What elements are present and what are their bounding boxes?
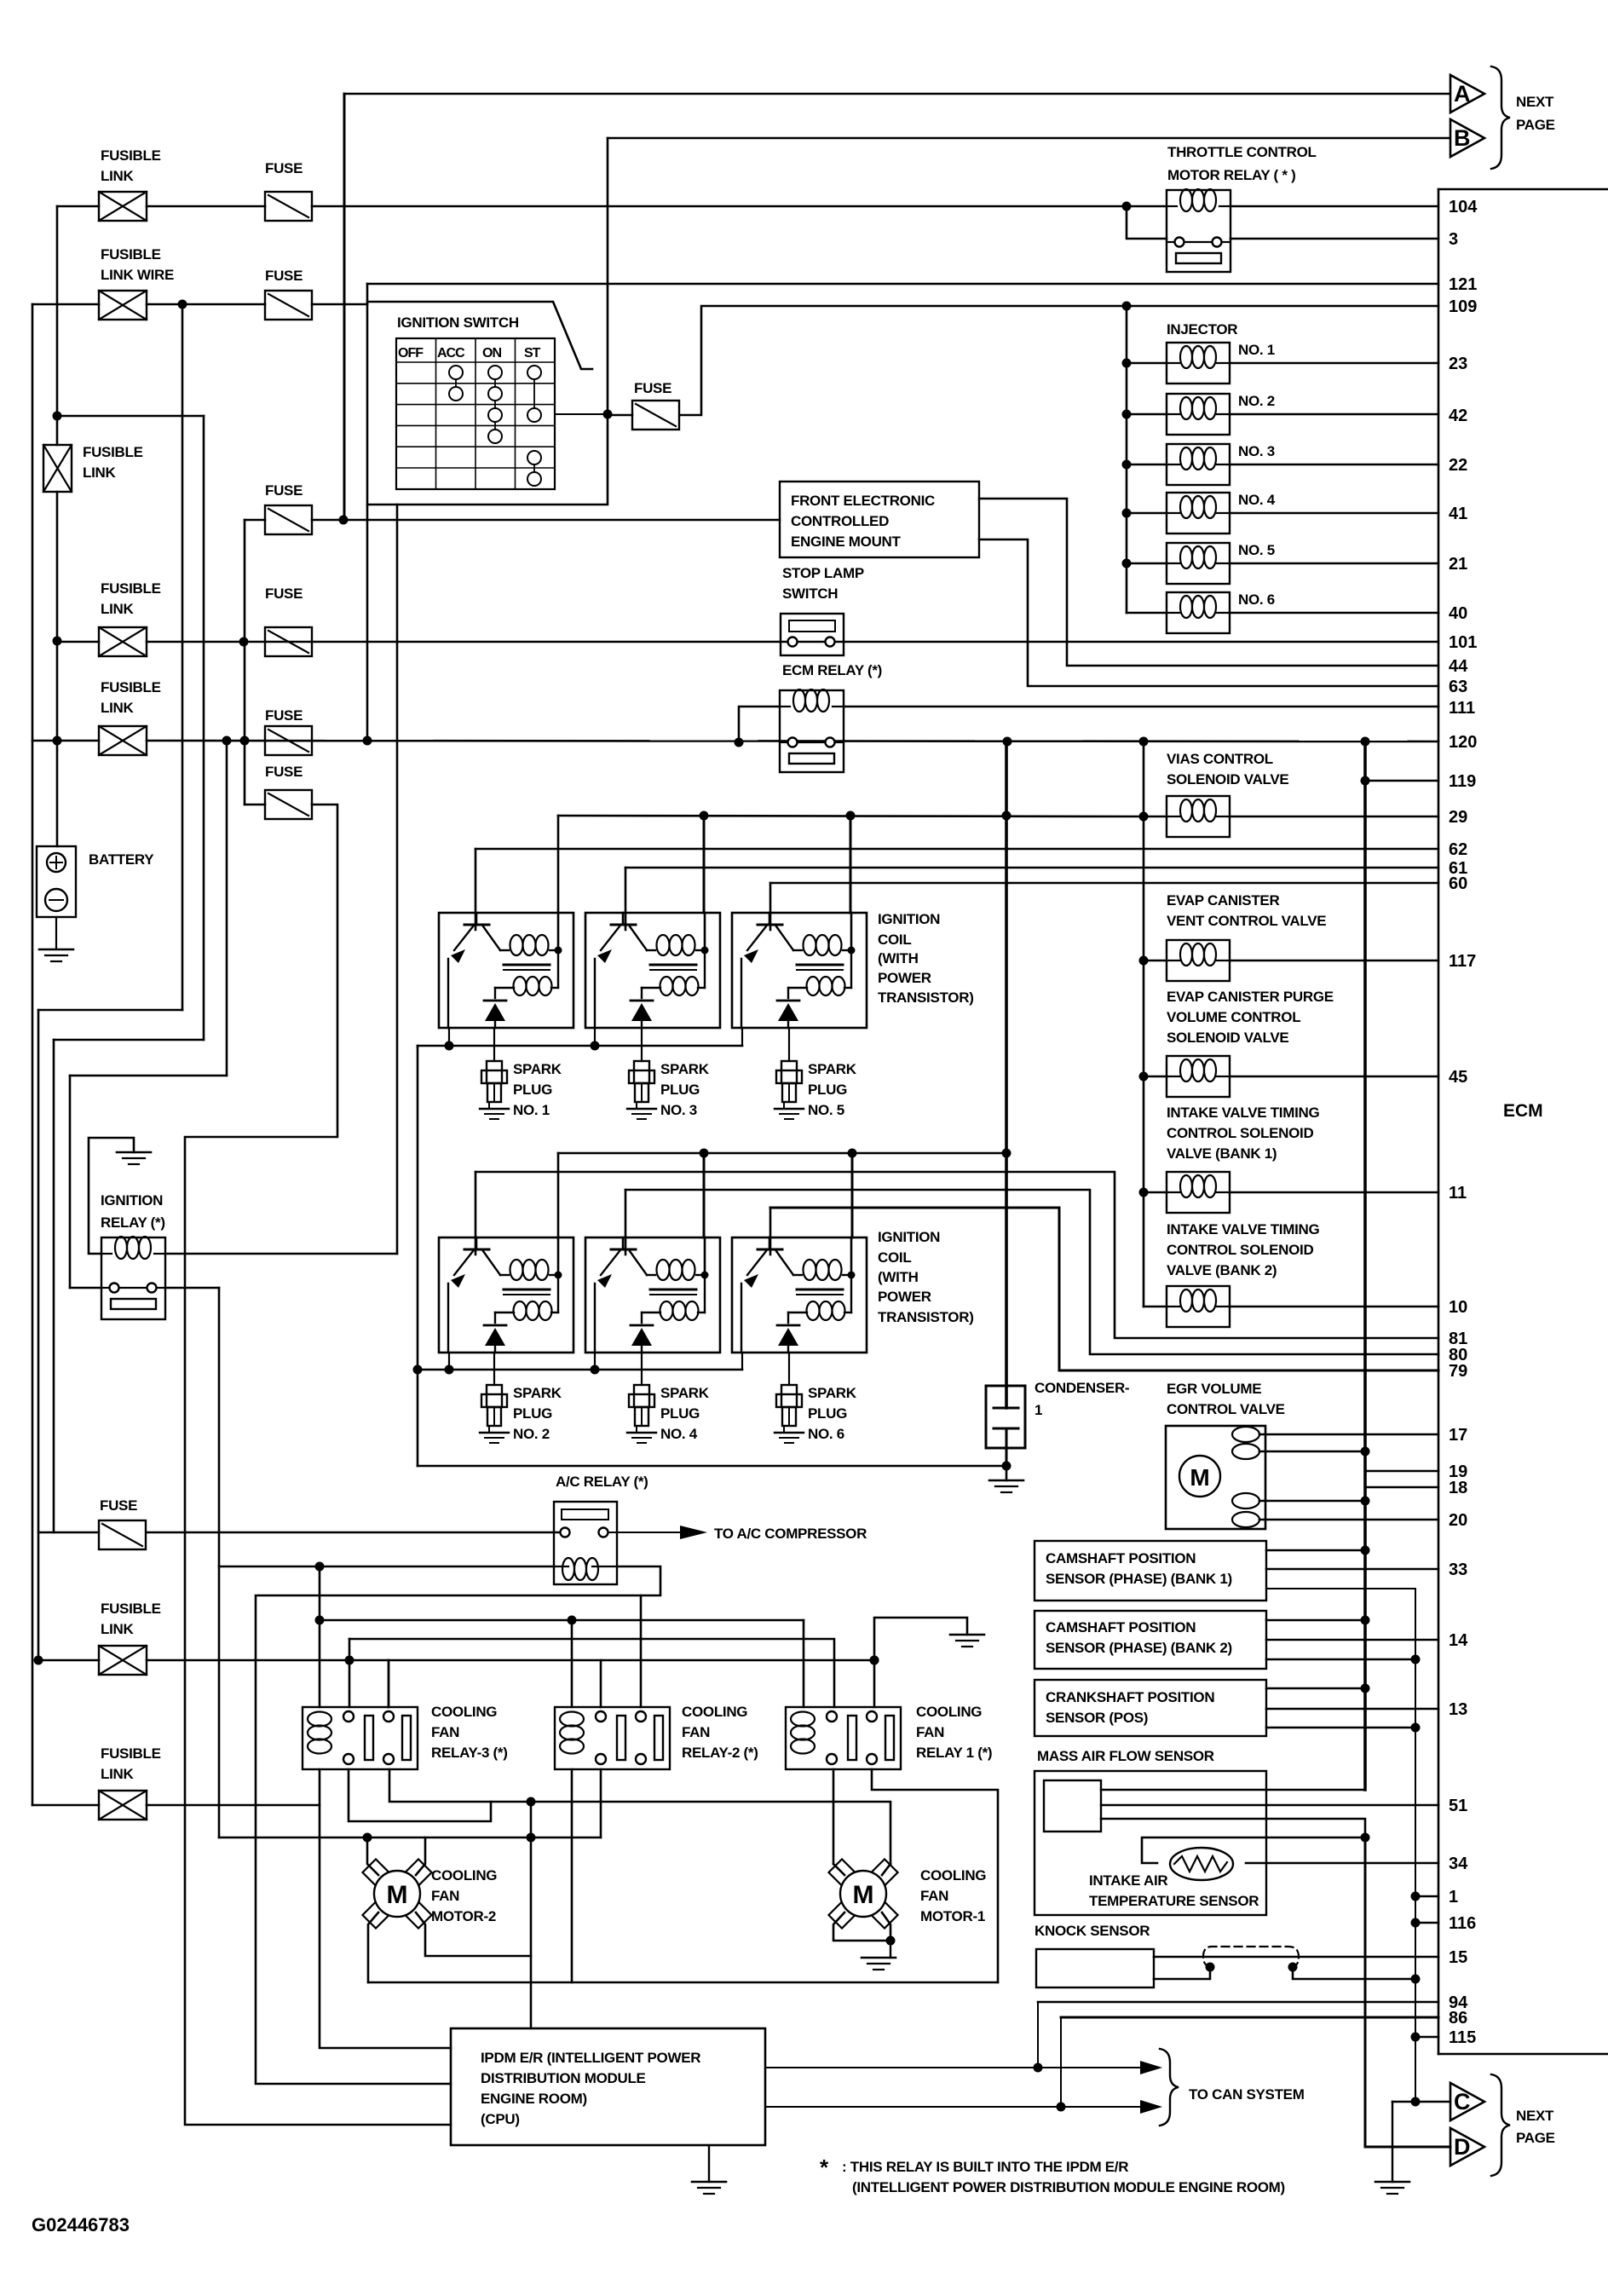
svg-text:LINK: LINK [101,601,134,617]
node: junction row242/x1322 [1122,202,1132,211]
svg-text:14: 14 [1449,1631,1468,1650]
injector NO. 3 (pin 22) [1122,460,1132,470]
svg-text:FAN: FAN [431,1888,459,1904]
svg-text:NO. 6: NO. 6 [808,1426,844,1442]
wire: pin 34 [1246,1862,1438,1865]
wire: fuse7 to A/C relay contact [147,1532,560,1534]
svg-text:1: 1 [1449,1888,1458,1907]
svg-text:SPARK: SPARK [808,1385,857,1401]
svg-text:ENGINE MOUNT: ENGINE MOUNT [791,534,902,550]
ground: condenser [1006,1466,1008,1480]
wire: C-line ground riser [1392,2102,1393,2182]
svg-text:NO. 4: NO. 4 [660,1426,698,1442]
wire: fuse3 output to front mount [312,519,780,522]
svg-text:PLUG: PLUG [513,1405,552,1422]
fusible link FL5 (row 869) [99,726,147,755]
svg-text:13: 13 [1449,1700,1467,1719]
svg-text:D: D [1454,2134,1471,2160]
wire: ignition relay coil from ignition switch [165,1253,397,1255]
svg-text:109: 109 [1449,297,1477,316]
svg-text:TO A/C COMPRESSOR: TO A/C COMPRESSOR [714,1526,867,1542]
front electronic controlled engine mount [780,482,979,557]
svg-text:PLUG: PLUG [660,1082,700,1098]
wire: riser x=287 fuse3/fuse6 feed [244,520,246,805]
svg-text:B: B [1454,125,1471,151]
svg-text:POWER: POWER [878,1289,931,1305]
svg-text:SWITCH: SWITCH [782,586,838,602]
svg-text:SENSOR (PHASE) (BANK 1): SENSOR (PHASE) (BANK 1) [1046,1571,1232,1587]
wire: pin 51 [1101,1804,1438,1807]
wire: coil B+ bus bank1 y=957 [558,816,1144,816]
svg-text:21: 21 [1449,555,1467,574]
wire: relay coil feed bus y=1901 [320,1619,804,1622]
brace next page (top) [1491,66,1510,169]
svg-text:C: C [1454,2089,1471,2114]
svg-text:MOTOR-2: MOTOR-2 [431,1908,496,1924]
wire: x=375 coil riser (relay-3) [319,1566,321,1707]
svg-text:TRANSISTOR): TRANSISTOR) [878,989,974,1006]
svg-text:COIL: COIL [878,932,911,948]
wire: sensor supply bus x=1602 [1363,741,1367,1790]
wire: fuse7 input [38,1532,99,1534]
injector NO. 5 (pin 21) [1122,559,1132,568]
svg-text:INTAKE AIR: INTAKE AIR [1089,1872,1167,1889]
svg-text:INJECTOR: INJECTOR [1167,321,1237,337]
node: junction x286/row753 [239,637,249,647]
svg-text:VENT CONTROL VALVE: VENT CONTROL VALVE [1167,913,1326,929]
svg-text:ECM RELAY (*): ECM RELAY (*) [782,662,882,678]
svg-text:101: 101 [1449,633,1477,652]
wire: motor-2 feed y=2156 [219,1837,601,1839]
cooling fan relay 1 (*) [786,1707,901,1769]
wire: coil bus drops bank1 [557,816,560,913]
wire: MAF ground [1101,1819,1365,1837]
wire: relay-2 contact output [600,1769,602,1837]
wire: motor-2 leads [367,1837,378,1875]
wire: pin 17 [1259,1434,1438,1436]
svg-text:NO. 1: NO. 1 [1238,342,1275,358]
ground: motor-1 [890,1941,891,1958]
svg-text:117: 117 [1449,952,1476,971]
svg-text:A/C RELAY (*): A/C RELAY (*) [556,1474,648,1490]
svg-text:VALVE (BANK 1): VALVE (BANK 1) [1167,1145,1277,1162]
svg-text:NO. 3: NO. 3 [660,1102,697,1118]
wire: relay-3 right contact riser x=456 [388,1660,390,1707]
svg-text:RELAY-2 (*): RELAY-2 (*) [682,1745,758,1761]
wire: engine mount to pin 63 [979,539,1438,686]
svg-text:LINK: LINK [101,168,134,184]
svg-text:FUSE: FUSE [265,482,303,499]
svg-text:41: 41 [1449,505,1467,523]
svg-text:62: 62 [1449,840,1467,859]
condenser-1 [1005,741,1008,1408]
wire: row 242 fuse to throttle relay coil [312,205,1167,208]
svg-text:ACC: ACC [437,346,465,361]
fusible link wire FL2 (row 357) [99,291,147,320]
intake air temperature sensor [1142,1837,1365,1863]
svg-text:LINK WIRE: LINK WIRE [101,267,174,283]
wire: EGR tap to bus [1259,1451,1365,1453]
svg-text:1: 1 [1035,1402,1042,1418]
svg-text:(WITH: (WITH [878,950,919,966]
svg-text:22: 22 [1449,456,1467,475]
node: junction x404/row610 [339,516,349,525]
svg-text:PAGE: PAGE [1516,2130,1555,2146]
fusible link FL1 (row 242) [99,192,147,221]
wire: row 869 ECM-relay feed [32,740,99,742]
svg-text:FRONT ELECTRONIC: FRONT ELECTRONIC [791,493,935,509]
wire: ignition relay contact from x=82 [70,1287,101,1289]
wire: pin 121 riser x=431 [366,284,369,741]
wire: condenser/emitter ground bus y=1720 [418,1465,1006,1468]
svg-text:FUSIBLE: FUSIBLE [101,679,161,695]
svg-text:COOLING: COOLING [682,1704,747,1720]
svg-text:SOLENOID VALVE: SOLENOID VALVE [1167,1030,1288,1046]
svg-text:44: 44 [1449,657,1468,676]
svg-text:MASS AIR FLOW SENSOR: MASS AIR FLOW SENSOR [1037,1748,1214,1764]
wire: emitter bus bank1 y=1227 [418,1045,742,1047]
fuse F5 (row 944) [265,790,312,819]
wire: A-arrow riser x=404 [343,94,346,520]
svg-text:PLUG: PLUG [808,1082,847,1098]
svg-text:COIL: COIL [878,1249,911,1266]
svg-text:KNOCK SENSOR: KNOCK SENSOR [1035,1923,1150,1939]
wire: ST output to fuse F6 [555,413,608,415]
wire: IPDM CAN-L output [765,2106,1140,2108]
spark plug no.3 [641,1028,643,1061]
wire: fuse5 input [245,804,265,806]
wire: pin 80 line [625,1190,1438,1354]
wire: pin 109 injector bus x=1322 [1122,302,1132,311]
wire: row 1262 [70,1075,227,1077]
wire: fuse5 output loop to IPDM via x=217 [185,805,451,2125]
ignition coil 5 (bank1) [732,913,867,1028]
svg-text:TEMPERATURE SENSOR: TEMPERATURE SENSOR [1089,1893,1259,1909]
svg-text:FUSIBLE: FUSIBLE [101,1745,161,1762]
svg-text:INTAKE VALVE TIMING: INTAKE VALVE TIMING [1167,1221,1319,1237]
wire: pin 86 [1061,2016,1438,2019]
wire: pin 79 line [770,1208,1438,1370]
svg-text:CONTROL SOLENOID: CONTROL SOLENOID [1167,1125,1313,1141]
svg-text:51: 51 [1449,1797,1467,1815]
svg-text:111: 111 [1449,699,1475,718]
fuse F3 (row 610) [265,505,312,534]
wire: x=266 vertical to row 1262 [226,741,228,1076]
svg-text:G02446783: G02446783 [32,2214,130,2235]
svg-text:DISTRIBUTION MODULE: DISTRIBUTION MODULE [481,2070,646,2086]
svg-text:79: 79 [1449,1362,1467,1381]
svg-text:COOLING: COOLING [431,1704,497,1720]
svg-text:15: 15 [1449,1948,1467,1967]
svg-text:COOLING: COOLING [431,1867,497,1884]
injector NO. 4 (pin 41) [1122,509,1132,518]
svg-text:NO. 3: NO. 3 [1238,443,1275,459]
fuse F4 (row 753) [265,627,312,656]
wire: relay-1 right contact to x=1171 [872,1769,998,1982]
svg-text:NEXT: NEXT [1516,2108,1554,2124]
wire: relay-2 contact riser x=705 [600,1660,602,1707]
ignition coil 6 (bank2) [732,1237,867,1353]
svg-text:TRANSISTOR): TRANSISTOR) [878,1309,974,1325]
svg-text:NO. 2: NO. 2 [1238,393,1275,409]
svg-text:116: 116 [1449,1914,1476,1933]
svg-text:ON: ON [482,346,501,361]
wire: fan feed y=2114 [389,1769,890,1864]
ignition coil 2 (bank2) [439,1237,573,1353]
svg-text:LINK: LINK [101,1621,134,1637]
svg-text:42: 42 [1449,407,1467,425]
svg-text:(WITH: (WITH [878,1269,919,1285]
svg-text:NO. 4: NO. 4 [1238,492,1276,508]
svg-text:SENSOR (POS): SENSOR (POS) [1046,1710,1148,1726]
svg-text:20: 20 [1449,1511,1467,1530]
svg-text:CAMSHAFT POSITION: CAMSHAFT POSITION [1046,1619,1196,1635]
wire: A/C relay coil return to IPDM [256,1566,660,2084]
svg-text:18: 18 [1449,1479,1467,1497]
svg-text:40: 40 [1449,604,1467,623]
svg-text:EGR VOLUME: EGR VOLUME [1167,1381,1261,1397]
svg-text:FAN: FAN [682,1724,710,1740]
fuse F6 (ignition ST) [632,401,679,430]
svg-text:63: 63 [1449,678,1467,696]
svg-text:IGNITION: IGNITION [878,1229,940,1245]
svg-text:CONTROLLED: CONTROLLED [791,513,889,529]
wire: ignition relay output x=257 [218,1288,221,1837]
wire: sensor return bus lower x=1602 [1364,1837,1367,2147]
svg-text:FUSE: FUSE [265,160,303,176]
svg-text:FAN: FAN [431,1724,459,1740]
camshaft position sensor (phase) (bank 1) [1035,1541,1266,1601]
wire: pin 115 [1411,2033,1421,2042]
svg-text:23: 23 [1449,355,1467,373]
battery [37,846,76,917]
wire: pin 15 (knock signal) [1154,1956,1438,1959]
injector NO. 1 (pin 23) [1122,359,1132,368]
svg-text:NEXT: NEXT [1516,94,1554,110]
arrow C to next page [1450,2083,1484,2120]
spark plug no.5 [788,1028,790,1061]
wire: solenoid feed bus x=1342 [1143,741,1145,1307]
node: junction x67/row869 [53,736,62,746]
ground: cooling fan relay-1 [950,1634,984,1636]
svg-text:SPARK: SPARK [660,1385,710,1401]
svg-text:FUSE: FUSE [265,268,303,284]
wire: IPDM CAN-H output [765,2067,1140,2068]
svg-text:CONTROL VALVE: CONTROL VALVE [1167,1401,1285,1417]
node: junction x266/row869 [222,736,232,746]
svg-text:FUSIBLE: FUSIBLE [101,246,161,262]
wire: pin 3 [1230,238,1438,240]
fuse F4b (row 869) [265,726,312,755]
node: junction x431/row869 [363,736,372,746]
svg-text:EVAP CANISTER: EVAP CANISTER [1167,892,1279,909]
svg-text:PLUG: PLUG [513,1082,552,1098]
node: pin120 junctions [1003,737,1012,747]
svg-text:FUSE: FUSE [634,380,671,396]
injector NO. 6 (pin 40) [1127,612,1167,614]
svg-text:POWER: POWER [878,970,931,986]
wire: x=671 coil riser (relay-2) [571,1620,573,1707]
svg-text:FUSE: FUSE [265,707,303,724]
svg-text:IGNITION SWITCH: IGNITION SWITCH [397,314,519,331]
svg-text:(CPU): (CPU) [481,2111,520,2127]
svg-text:BATTERY: BATTERY [89,851,154,868]
svg-text:SPARK: SPARK [513,1061,562,1077]
brace: to CAN system [1160,2049,1179,2126]
wire: row 753 stop-lamp feed [57,641,99,643]
svg-text:FUSE: FUSE [265,764,303,780]
svg-text:OFF: OFF [398,346,424,361]
svg-text:SPARK: SPARK [808,1061,857,1077]
camshaft position sensor (phase) (bank 2) [1035,1611,1266,1669]
wire: emitter bus bank2 y=1607 [418,1369,742,1371]
wire: x=466 ignition relay coil feed [396,505,399,1254]
svg-text:PAGE: PAGE [1516,117,1555,133]
wire: throttle relay contact feed [1127,206,1167,239]
svg-text:3: 3 [1449,230,1458,249]
svg-text:FUSE: FUSE [265,586,303,602]
wire: coil bus drops bank2 [557,1153,560,1237]
IPDM E/R box [451,2028,765,2145]
wire: ignition relay coil to ground [89,1138,134,1254]
wire: battery negative lead [55,917,57,949]
ignition coil 3 (bank1) [585,913,720,1028]
wire: coil B+ bus bank2 y=1353 [558,1152,1006,1155]
svg-text:CRANKSHAFT POSITION: CRANKSHAFT POSITION [1046,1689,1214,1705]
svg-text:PLUG: PLUG [660,1405,700,1422]
ignition coil 1 (bank1) [439,913,573,1028]
wire: ignition relay contact output [165,1287,219,1289]
svg-text:RELAY-3 (*): RELAY-3 (*) [431,1745,508,1761]
svg-text:M: M [387,1881,408,1909]
svg-text:A: A [1454,81,1471,107]
wire: A-arrow line y=110 [344,93,1450,95]
svg-text:VIAS CONTROL: VIAS CONTROL [1167,751,1273,767]
wire: engine mount to pin 44 [979,499,1438,666]
svg-text:34: 34 [1449,1855,1468,1873]
wire: fuse3 input [245,519,265,522]
wire: fuse F6 input [608,414,632,417]
spark plug no.2 [493,1353,495,1385]
wire: row 357 [32,303,99,306]
svg-text:121: 121 [1449,275,1477,294]
svg-text:33: 33 [1449,1560,1467,1579]
svg-text:VOLUME CONTROL: VOLUME CONTROL [1167,1009,1300,1025]
ignition coil 4 (bank2) [585,1237,720,1353]
fusible link FL4 (row 753) [99,627,147,656]
wire: relay contact feed y=1923 [349,1639,834,1707]
cooling fan relay-3 (*) [303,1707,418,1769]
wire: left outer vertical x=38 (fusible-link-wire feed) [32,304,34,1805]
node: junction x67/row752 [53,637,62,646]
wire: row 1948 [34,1656,43,1665]
svg-text:(INTELLIGENT POWER DISTRIBUTIO: (INTELLIGENT POWER DISTRIBUTION MODULE E… [852,2179,1285,2195]
svg-text:FAN: FAN [916,1724,944,1740]
svg-text:CAMSHAFT POSITION: CAMSHAFT POSITION [1046,1550,1196,1566]
arrow A to next page [1450,75,1484,112]
svg-text:MOTOR RELAY ( * ): MOTOR RELAY ( * ) [1167,167,1295,183]
wire: pin 1 [1411,1892,1421,1901]
wire: MAF power from bus [1101,1789,1365,1791]
vertical fusible link FL3 [43,445,72,492]
svg-text:45: 45 [1449,1068,1467,1087]
svg-text:FUSIBLE: FUSIBLE [101,1601,161,1617]
svg-text:29: 29 [1449,808,1467,827]
wire: relay-1 coil output to motor-1 [833,1769,835,1864]
svg-text:SPARK: SPARK [660,1061,710,1077]
wire: row 1185 [38,1009,182,1012]
svg-text:SOLENOID VALVE: SOLENOID VALVE [1167,771,1288,787]
svg-text:CONTROL SOLENOID: CONTROL SOLENOID [1167,1242,1313,1258]
svg-text:LINK: LINK [83,464,116,481]
ignition switch table [396,338,555,489]
svg-text:FUSIBLE: FUSIBLE [101,580,161,597]
wire: pin 121 line [367,283,1438,286]
cooling fan relay-2 (*) [555,1707,670,1769]
ignition switch surround [367,302,592,369]
svg-text:SENSOR (PHASE) (BANK 2): SENSOR (PHASE) (BANK 2) [1046,1640,1232,1656]
svg-text:: THIS RELAY IS BUILT INTO THE: : THIS RELAY IS BUILT INTO THE IPDM E/R [842,2159,1128,2175]
wire: x=214 vertical [182,304,184,1010]
wire: pin 104 [1230,205,1438,208]
svg-text:COOLING: COOLING [916,1704,982,1720]
wire: relay-2 coil return [571,1769,573,1982]
ground: ignition relay [117,1151,151,1154]
svg-text:LINK: LINK [101,700,134,716]
ground: IPDM [708,2145,710,2182]
svg-text:RELAY 1 (*): RELAY 1 (*) [916,1745,992,1761]
wire: pin 94 [1038,2001,1438,2004]
svg-text:EVAP CANISTER PURGE: EVAP CANISTER PURGE [1167,989,1334,1005]
wire: pin 62 line [475,848,1438,851]
wire: bottom bus y=2326 to IPDM [368,1982,998,1984]
svg-text:SPARK: SPARK [513,1385,562,1401]
wire: row 488 to x=239 [57,415,204,418]
wire: EGR tap to bus [1259,1500,1365,1503]
wire: C-arrow line [1392,2101,1450,2103]
spark plug no.1 [493,1028,495,1061]
svg-text:RELAY (*): RELAY (*) [101,1214,165,1231]
injector NO. 2 (pin 42) [1122,410,1132,419]
wire: pin 116 [1411,1918,1421,1928]
wire: A/C compressor output [608,1532,680,1533]
wire: pin 20 [1259,1519,1438,1521]
node: junction x287/row869 [240,736,250,746]
ECM box [1438,189,1440,2054]
svg-text:M: M [853,1881,874,1909]
svg-text:INTAKE VALVE TIMING: INTAKE VALVE TIMING [1167,1105,1319,1121]
wire: pin 61 line [625,867,1438,869]
fuse F1 (row 242) [265,192,312,221]
svg-text:FAN: FAN [920,1888,948,1904]
wire: motor-1 leads [833,1864,844,1875]
svg-text:NO. 6: NO. 6 [1238,591,1275,608]
shielded cable (dashed) [1203,1947,1299,1967]
cooling fan motor-2 [362,1859,389,1885]
svg-text:120: 120 [1449,733,1477,752]
svg-text:TO CAN SYSTEM: TO CAN SYSTEM [1189,2086,1305,2103]
wire: D-arrow line [1365,2146,1450,2149]
svg-text:M: M [1190,1464,1209,1491]
svg-text:IGNITION: IGNITION [101,1192,163,1209]
svg-text:NO. 1: NO. 1 [513,1102,550,1118]
wire: ECM relay coil jumper [739,707,780,742]
arrow: CAN-H [1140,2061,1162,2074]
svg-text:LINK: LINK [101,1766,134,1782]
svg-text:IGNITION: IGNITION [878,911,940,927]
svg-text:NO. 5: NO. 5 [808,1102,844,1118]
wire: pin 81 line [475,1172,1438,1338]
